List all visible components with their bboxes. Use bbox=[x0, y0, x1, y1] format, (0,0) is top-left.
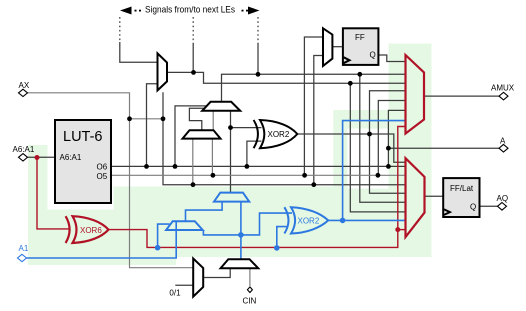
svg-text:Q: Q bbox=[370, 51, 376, 60]
node O6 to M3 tap bbox=[173, 164, 178, 169]
node AX to mux M1 junction bbox=[161, 116, 166, 121]
wire L1 drop into mux F8 bbox=[360, 74, 406, 202]
wire hat mux M4 output into mux M3 slant bbox=[189, 108, 204, 130]
svg-text:FF/Lat: FF/Lat bbox=[450, 184, 474, 193]
wire O6 tap up to mux M1 lower corner bbox=[147, 84, 159, 167]
green highlight lower-left block bbox=[28, 210, 176, 266]
wire O6 from LUT to mux F8 bbox=[111, 165, 406, 167]
node O5 staircase tap bbox=[376, 173, 381, 178]
node blue carry out tap bbox=[340, 218, 346, 224]
wire dashed feed 1 from next LE bbox=[119, 17, 121, 43]
node L2 drop bbox=[348, 81, 353, 86]
wire hat mux M3 output up to line L1 into mux F7 bbox=[222, 74, 407, 102]
pin A1 diamond bbox=[18, 254, 27, 261]
pin CIN diamond bbox=[247, 287, 252, 293]
green highlight carry stripe bbox=[333, 129, 347, 187]
svg-text:O5: O5 bbox=[97, 172, 108, 181]
wire L2 drop into mux F8 bbox=[350, 83, 406, 212]
xor gate XOR2 blue input arc bbox=[284, 207, 288, 233]
wire FF input mux output to FF bbox=[332, 46, 343, 48]
svg-text:A1: A1 bbox=[19, 244, 29, 253]
wire between hat muxes bbox=[212, 111, 214, 130]
wire node to XOR2 upper input bbox=[231, 127, 262, 129]
flip-flop FF/Lat bbox=[443, 178, 479, 217]
svg-text:AQ: AQ bbox=[497, 194, 509, 203]
green highlight carry corner block bbox=[333, 110, 388, 129]
node blue select to CA bbox=[155, 245, 161, 251]
wire O5 tap up to FF input mux bbox=[304, 37, 323, 175]
xor gate XOR2 blue body bbox=[291, 207, 328, 233]
wire O5 from LUT to mux F8 bbox=[111, 174, 406, 176]
wire 0/1 mux output to CIN hat mux bbox=[203, 268, 230, 277]
wire feed 2 down to M1 output line bbox=[192, 43, 194, 72]
pin A6:A1 diamond bbox=[19, 154, 28, 161]
node XOR2 output branch bbox=[367, 132, 372, 137]
svg-text:CIN: CIN bbox=[243, 297, 257, 306]
arrow right dots bbox=[242, 10, 244, 12]
svg-text:0/1: 0/1 bbox=[169, 289, 181, 298]
wire blue select from XOR6 node up to blue XOR2 lower input bbox=[277, 227, 287, 248]
node red A6:A1 branch bbox=[35, 155, 40, 160]
svg-text:AMUX: AMUX bbox=[491, 84, 515, 93]
hat mux M3 bbox=[202, 102, 240, 111]
mux F7 upper red output mux bbox=[406, 55, 425, 134]
xor gate XOR2 black input arc bbox=[254, 120, 258, 148]
wire feed 1 into mux M1 bbox=[120, 42, 158, 62]
wire mux F8 output to FF/Lat bbox=[425, 195, 444, 197]
wire red A6:A1 branch down to XOR6 input bbox=[37, 158, 70, 229]
node AX line to FF mux tap bbox=[311, 182, 316, 187]
xor gate XOR2 black body bbox=[260, 120, 297, 148]
mux M2 FF input mux bbox=[323, 28, 332, 66]
node red XOR6 into mux F8 bbox=[395, 227, 400, 232]
node AX line to M4 tap bbox=[191, 182, 196, 187]
node L1 drop bbox=[357, 72, 362, 77]
wire XOR2 output into mux F8 bbox=[297, 134, 407, 162]
node O6 to XOR2 tap bbox=[245, 164, 250, 169]
hat mux M6 CIN select mux bbox=[221, 259, 259, 268]
pin AX diamond bbox=[19, 89, 28, 96]
xor gate XOR6 red input arc bbox=[66, 216, 70, 243]
wire AX line tap up to hat mux M4 input bbox=[192, 139, 194, 185]
carry mux CB blue hat bbox=[214, 193, 249, 202]
wire AX input run down to 0/1 mux bbox=[28, 93, 194, 268]
wire CIN input stub bbox=[249, 268, 251, 286]
svg-text:XOR2: XOR2 bbox=[268, 130, 290, 139]
node O6 to M1 tap bbox=[144, 164, 149, 169]
node blue select to XOR2 bbox=[274, 245, 280, 251]
green highlight right column bbox=[389, 44, 432, 258]
green highlight below-window block bbox=[348, 189, 389, 258]
wire FF Q output into mux F7 bbox=[378, 55, 406, 62]
wire XOR2 branch staircase into both output muxes bbox=[370, 91, 407, 194]
node AX corner junction bbox=[127, 116, 132, 121]
node O6 staircase tap bbox=[386, 164, 391, 169]
hat mux M4 bbox=[183, 130, 221, 138]
green highlight left band bbox=[28, 145, 48, 210]
xor gate XOR6 red body bbox=[73, 216, 109, 243]
flip-flop FF/Lat clock triangle bbox=[444, 209, 450, 215]
wire blue carry branch to carry mux CA and blue XOR2 upper input bbox=[203, 213, 292, 235]
node A line junction bbox=[386, 146, 391, 151]
wire dashed feed 3 from next LE bbox=[257, 17, 259, 44]
wire O5 tap up to hat mux M4 input bbox=[211, 139, 213, 176]
wire O6 tap up to hat mux M3 input bbox=[175, 106, 207, 166]
wire O5 staircase into mux F7 bbox=[378, 101, 406, 176]
svg-text:AX: AX bbox=[19, 81, 30, 90]
flip-flop FF clock triangle bbox=[344, 57, 350, 63]
node CB output to XOR2 bbox=[228, 125, 233, 130]
wire AMUX output bbox=[424, 95, 500, 97]
svg-text:Signals from/to next LEs: Signals from/to next LEs bbox=[145, 5, 235, 16]
wire FF/Lat Q to AQ output bbox=[480, 205, 499, 207]
pin AQ diamond bbox=[498, 203, 507, 211]
carry mux CA blue hat bbox=[166, 221, 203, 230]
mux F8 lower red output mux bbox=[406, 158, 425, 237]
arrow right bbox=[248, 7, 260, 15]
wire AX line tap up to FF input mux bbox=[314, 56, 323, 185]
svg-text:XOR2: XOR2 bbox=[298, 217, 320, 226]
wire A output line bbox=[388, 147, 499, 149]
node O5 to M4 tap bbox=[211, 173, 216, 178]
wire mux M1 output to line L2 into mux F7 bbox=[167, 72, 406, 83]
wire O6 staircase into mux F7 and A line bbox=[388, 110, 406, 166]
wire dashed feed 2 from next LE bbox=[192, 17, 194, 44]
svg-text:Q: Q bbox=[470, 203, 476, 212]
wire blue A1 input up to carry mux CA bbox=[27, 221, 177, 258]
wire A6:A1 input into LUT bbox=[28, 156, 55, 158]
node feed2 on M1 output bbox=[191, 70, 196, 75]
wire 0/1 constant stub bbox=[175, 284, 193, 286]
mux M5 0/1 select mux bbox=[193, 259, 203, 297]
wire blue carry in chain from CIN mux to carry mux CB bbox=[240, 202, 242, 260]
svg-text:O6: O6 bbox=[97, 163, 108, 172]
mux M1 top-left routing mux bbox=[158, 53, 168, 90]
wire red XOR6 output to output muxes bbox=[109, 127, 407, 248]
wire blue select from XOR6 node up to carry mux CA bbox=[158, 224, 170, 248]
arrow left bbox=[120, 7, 132, 15]
svg-text:A6:A1: A6:A1 bbox=[13, 145, 35, 154]
LUT-6 U1 bbox=[55, 120, 111, 203]
flip-flop FF bbox=[343, 28, 379, 65]
green highlight mid block bbox=[114, 187, 349, 258]
wire AX tap up into mux M1 and down to AX select line bbox=[163, 92, 406, 185]
arrow left dots bbox=[135, 10, 137, 12]
wire carry mux CB output up to hat mux M3 bbox=[230, 111, 232, 193]
svg-text:A6:A1: A6:A1 bbox=[60, 153, 82, 162]
pin A diamond bbox=[499, 144, 508, 152]
wire AX branch to node bbox=[130, 118, 164, 120]
node blue carry branch bbox=[238, 232, 244, 238]
node O5 to FF mux tap bbox=[302, 173, 307, 178]
wire blue carry mux CA output to carry mux CB bbox=[186, 202, 223, 222]
wire blue carry out tap into mux F7 bbox=[343, 121, 406, 221]
svg-text:LUT-6: LUT-6 bbox=[63, 129, 103, 145]
svg-text:FF: FF bbox=[355, 33, 365, 42]
wire O6 tap up to XOR2 lower input bbox=[247, 141, 262, 166]
node feed3 on L1 bbox=[256, 72, 261, 77]
pin AMUX diamond bbox=[499, 92, 508, 100]
svg-text:XOR6: XOR6 bbox=[80, 226, 102, 235]
wire blue XOR2 output into mux F8 bbox=[328, 219, 406, 221]
wire feed 3 down to L1 line bbox=[257, 43, 259, 74]
wire red branch into mux F8 bbox=[398, 229, 406, 231]
